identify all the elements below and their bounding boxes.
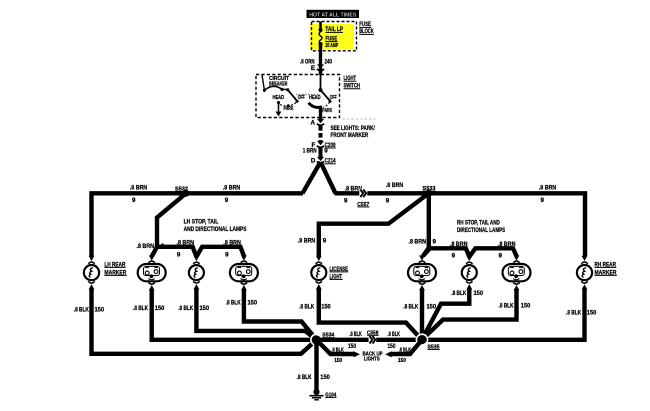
svg-text:.8 BLK: .8 BLK [451,290,466,297]
wire license light ground .8 BLK 150 [299,289,422,340]
note RH STOP, TAIL AND DIRECTIONAL LAMPS [457,219,505,234]
svg-text:.8 BLK: .8 BLK [299,303,314,310]
switch contact right (HEAD-OFF-PARK, in PARK) [309,75,338,120]
label LICENSE LIGHT [330,266,349,281]
svg-text:9: 9 [323,237,327,244]
wire S533 to license light [319,193,429,256]
svg-text:150: 150 [321,303,331,310]
svg-text:9: 9 [225,251,229,258]
wire S533 to RH lamp 1 [423,193,429,256]
connector C558 (in-line) [367,330,379,344]
label .8 BRN / 9 (license drop) [298,237,327,244]
svg-text:.8 BRN: .8 BRN [539,185,557,192]
svg-text:9: 9 [433,238,437,245]
svg-text:.8 BLK: .8 BLK [133,305,148,312]
svg-text:.8 BRN: .8 BRN [298,237,316,244]
svg-text:150: 150 [521,302,531,309]
wire 1 BRN 9 [303,147,328,159]
note SEE LIGHTS: PARK/ FRONT MARKER [331,125,376,139]
svg-text:.8 BRN: .8 BRN [498,241,516,248]
wire LH lamp feed (lamp1 to lamp2) [157,247,196,257]
lamp LH tail single 2 [189,256,204,290]
connector terminal A [311,119,325,127]
svg-text:.8 BLK: .8 BLK [297,374,312,381]
lamp RH tail single 2 [462,256,477,290]
svg-text:LH STOP, TAIL: LH STOP, TAIL [184,218,219,225]
svg-text:OFF: OFF [330,95,337,101]
svg-text:.8 BLK: .8 BLK [566,309,581,316]
svg-text:150: 150 [388,343,396,350]
lamp RH stop/tail dual-filament 1 [408,255,436,290]
wire RH lamp2 ground .8 BLK 150 [422,289,484,340]
svg-text:9: 9 [225,197,229,204]
svg-text:.8 BLK: .8 BLK [349,331,362,338]
wire RH lamp3 ground .8 BLK 150 [422,289,531,339]
svg-text:BREAKER: BREAKER [269,82,288,88]
svg-text:1 BRN: 1 BRN [303,148,317,155]
svg-text:.8 BLK: .8 BLK [178,305,193,312]
svg-text:150: 150 [427,304,437,311]
svg-text:.8 BLK: .8 BLK [74,307,89,314]
svg-text:HEAD: HEAD [309,95,321,101]
svg-text:240: 240 [325,59,333,66]
svg-text:20 AMP: 20 AMP [325,43,338,49]
note BACK UP LIGHTS [363,351,383,362]
wire LH lamp3 ground .8 BLK 150 [226,289,317,339]
wire LH lamp1 ground .8 BLK 150 [133,289,317,339]
lamp license light [311,256,326,290]
wire into fuse (top lead) [319,22,322,29]
faint dashed note line [343,118,378,120]
svg-text:150: 150 [95,307,105,314]
off-page arrow to BACK UP LIGHTS (left) [354,351,360,357]
wire LH lamp2 ground .8 BLK 150 [178,289,316,340]
connector C557 (in-line) [357,189,369,208]
label .8 BRN / 9 (C557 to S533) [386,182,404,204]
svg-text:150: 150 [320,374,330,381]
label .8 BRN / 9 (feed seg 2) [223,240,241,259]
svg-text:150: 150 [587,309,597,316]
fuse block dashed box [310,22,357,51]
connector terminal E [311,64,324,72]
switch contact left (HEAD-OFF-PARK) [273,88,306,116]
svg-text:.8 BLK: .8 BLK [499,302,514,309]
svg-text:.8 BRN: .8 BRN [409,238,427,245]
splice S534 [311,333,335,346]
svg-text:.8 BRN: .8 BRN [223,240,241,247]
svg-text:150: 150 [200,305,210,312]
svg-text:9: 9 [541,197,545,204]
wire RH rear marker ground .8 BLK 150 [422,289,597,340]
label .8 BRN / 9 (feed seg 1) [177,240,195,259]
svg-text:.8 BLK: .8 BLK [331,347,344,353]
svg-text:150: 150 [348,343,356,350]
power source label HOT AT ALL TIMES [307,10,360,18]
label .8 BRN / 9 (RH feed seg 2) [498,241,516,260]
svg-text:.8 BRN: .8 BRN [177,240,195,247]
wire S534 to back up lights (left) .8 BLK 150 [317,340,354,364]
svg-text:D: D [311,158,316,165]
lamp LH stop/tail dual-filament 1 [138,255,166,290]
label .8 BRN / 9 (far left segment) [130,185,148,204]
wire S534 to S535 .8 BLK 150 [317,331,423,350]
svg-text:SEE LIGHTS: PARK/: SEE LIGHTS: PARK/ [331,125,376,132]
label LH REAR MARKER [104,261,126,276]
wire left bus .8 BRN (to LH rear marker) [92,193,304,256]
wire S534 to ground .8 BLK 150 [297,340,331,390]
wire S532 to LH lamp 1 [152,193,186,256]
svg-text:LIGHTS: LIGHTS [364,356,380,362]
svg-text:9: 9 [132,197,136,204]
circuit breaker [262,75,290,92]
wire split from C214 to left and right buses [303,162,336,193]
svg-text:PARK: PARK [322,108,332,114]
ground G104 [310,389,337,400]
svg-text:A: A [311,120,316,127]
wire RH lamp feed (lamp2 to lamp3) [469,248,516,256]
dashed continuation wire to other page [319,126,323,142]
wire S535 to back up lights (right) .8 BLK 150 [391,340,422,364]
svg-text:.8 BRN: .8 BRN [450,241,468,248]
label .8 BRN / 9 (LH lamp drop) [137,243,165,250]
wire RH lamp feed (lamp1 to lamp2) [423,248,469,256]
svg-text:.8 BLK: .8 BLK [226,299,241,306]
label .8 BRN / 9 (RH feed seg 1) [450,241,468,260]
svg-text:AND DIRECTIONAL LAMPS: AND DIRECTIONAL LAMPS [184,226,247,233]
svg-text:.8 BLK: .8 BLK [403,304,418,311]
lamp LH stop/tail dual-filament 3 [230,255,258,290]
svg-text:DIRECTIONAL LAMPS: DIRECTIONAL LAMPS [457,227,505,234]
lamp LH rear marker [84,256,99,290]
splice S532 [175,186,190,197]
wire LH rear marker ground .8 BLK 150 [74,289,317,354]
lamp RH stop/tail dual-filament 3 [503,255,531,290]
svg-text:.8 BLK: .8 BLK [399,347,412,353]
lamp RH rear marker [577,256,592,290]
connector F C209 [312,141,336,149]
off-page arrow from BACK UP LIGHTS (right) [385,351,391,357]
svg-text:9: 9 [386,197,390,204]
svg-text:E: E [311,65,315,72]
internal dashed link between switch halves [296,93,320,95]
svg-text:HEAD: HEAD [273,95,285,101]
wire LH lamp feed (lamp2 to lamp3) [196,247,244,257]
label .8 BRN / 9 (right of split) [344,186,363,205]
svg-text:FRONT MARKER: FRONT MARKER [331,132,369,139]
label .8 BRN / 9 (far right segment) [539,185,557,204]
svg-text:9: 9 [344,197,348,204]
svg-text:.8 BLK: .8 BLK [388,331,401,338]
svg-text:HOT AT ALL TIMES: HOT AT ALL TIMES [309,12,356,18]
light switch dashed box [256,75,340,118]
svg-text:150: 150 [248,299,258,306]
svg-text:9: 9 [452,252,456,259]
svg-text:9: 9 [499,252,503,259]
label .8 BRN / 9 (left-center segment) [223,185,241,204]
svg-text:150: 150 [155,305,165,312]
label RH REAR MARKER [595,261,617,276]
splice S535 [416,334,440,350]
svg-text:RH STOP, TAIL AND: RH STOP, TAIL AND [457,219,500,226]
svg-text:150: 150 [398,358,406,364]
svg-text:.8 BRN: .8 BRN [137,243,155,250]
svg-text:.8 BRN: .8 BRN [386,182,404,189]
svg-text:.8 BRN: .8 BRN [130,185,148,192]
svg-text:.8 BRN: .8 BRN [223,185,241,192]
wire right bus to C557 [335,193,586,256]
svg-text:150: 150 [334,358,342,364]
fuse element TAIL LP FUSE 20 AMP [319,26,344,49]
label .8 BRN / 9 (RH lamp drop) [409,238,437,245]
svg-text:OFF: OFF [298,95,305,101]
note LH STOP, TAIL AND DIRECTIONAL LAMPS [184,218,247,233]
svg-text:150: 150 [474,290,484,297]
connector D C214 [311,157,336,165]
fuse block label [359,21,374,35]
svg-text:9: 9 [324,148,328,155]
wire RH lamp1 ground .8 BLK 150 [403,289,436,339]
light switch label [344,75,361,90]
splice S533 [423,186,437,197]
svg-text:9: 9 [177,251,181,258]
wire .8 ORN 240 from fuse to light switch [300,44,332,75]
